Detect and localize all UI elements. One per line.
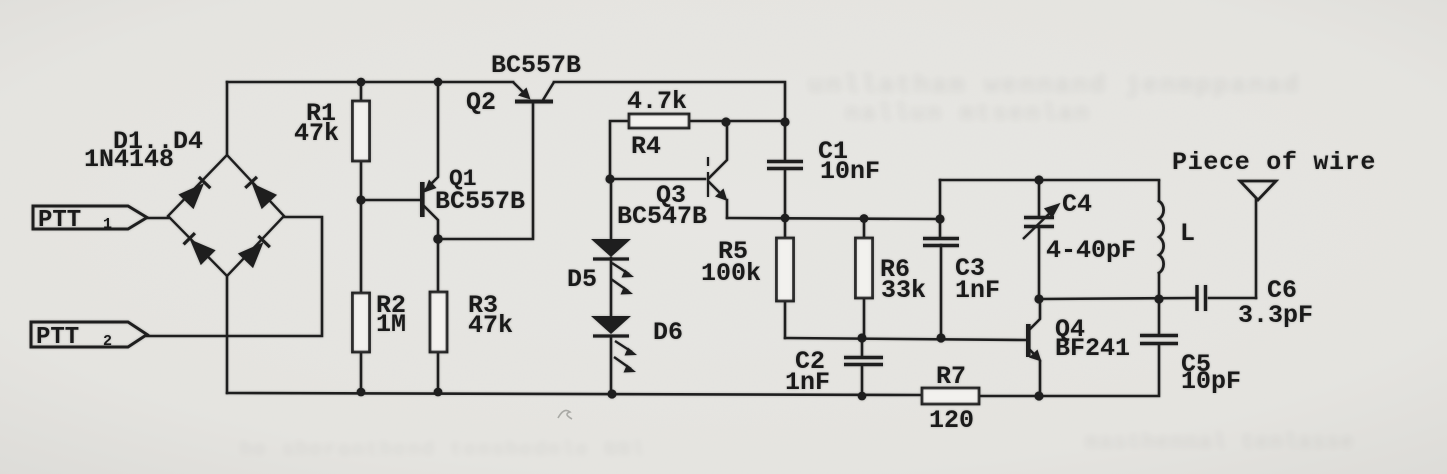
resistor R2 <box>353 293 370 352</box>
wire Q3 base <box>610 178 705 181</box>
transistor Q3 emitter arrow <box>715 189 728 202</box>
transistor Q3 emitter wire <box>709 182 727 218</box>
wire R4 left down to Q3 base node <box>610 121 629 179</box>
transistor Q2 emitter arrow <box>518 88 531 100</box>
diode D2 (bridge top-right) <box>243 175 277 209</box>
inductor L coil <box>1159 201 1164 273</box>
wire bridge right vertex to PTT2 <box>147 217 322 336</box>
capacitor C2 <box>844 358 883 365</box>
capacitor C4 trimmer <box>1024 218 1054 227</box>
wire diamond top stem <box>226 82 229 155</box>
node line N3 <box>1039 298 1196 299</box>
node line N1 emitter Q3 <box>727 218 940 219</box>
junction C4 top <box>1034 175 1043 184</box>
junction Q1 collector/R3/Q2 base node <box>433 234 443 244</box>
wire R6 stems <box>863 219 866 338</box>
wire PTT1 to bridge <box>147 217 168 220</box>
resistor R7 <box>922 388 979 404</box>
resistor R6 <box>856 238 873 298</box>
transistor Q1 emitter wire <box>425 82 438 190</box>
capacitor C5 <box>1140 336 1178 344</box>
wire D5 D6 chain <box>610 179 613 394</box>
junction Q3 collector on R4 right wire <box>721 117 730 126</box>
junction R6 top <box>860 214 869 223</box>
antenna wire <box>1255 199 1258 298</box>
wire C1 bottom stem <box>784 170 787 218</box>
junction C3 top <box>935 214 944 223</box>
LED D5 <box>591 239 631 257</box>
transistor Q4 collector wire <box>1030 299 1040 329</box>
svg-text:masthennal tenlasse: masthennal tenlasse <box>1085 430 1355 455</box>
junction R2 bottom on ground rail <box>357 388 366 397</box>
junction Q4 emitter on ground rail <box>1034 391 1043 400</box>
junction R4 right wire to C1 top <box>780 117 789 126</box>
wire top right line to C4 and L <box>940 179 1159 182</box>
diode D1 (bridge top-left) <box>178 175 212 209</box>
capacitor C6 <box>1197 285 1206 311</box>
junction C2 bottom on ground rail <box>858 392 867 401</box>
wire Q1 base <box>361 199 420 202</box>
diode D4 (bridge bottom-right) <box>238 234 272 268</box>
transistor Q4 emitter wire <box>1030 350 1040 396</box>
LED D6 <box>591 316 631 334</box>
transistor Q1 bar <box>420 182 425 217</box>
junction R1 top on supply rail <box>357 78 366 87</box>
junction R6 bottom/C2 top <box>857 333 866 342</box>
transistor Q1 collector wire <box>424 206 438 239</box>
wire C6 to antenna <box>1209 297 1256 300</box>
resistor R3 <box>430 292 447 352</box>
capacitor C1 <box>767 162 803 169</box>
svg-text:he sheranthend tenshednle N: he sheranthend tenshednle NNl <box>240 439 646 462</box>
junction C3 bottom <box>936 333 945 342</box>
transistor Q2 collector wire <box>543 82 554 100</box>
wire top rail right <box>554 82 785 159</box>
wire R4 right to C1 node <box>689 120 785 123</box>
transistor Q4 emitter arrow <box>1029 350 1042 362</box>
wire L stems <box>1158 181 1161 299</box>
junction Q1 emitter on supply rail <box>434 78 443 87</box>
transistor Q2 emitter wire <box>513 82 524 93</box>
node line N2 <box>785 338 1026 340</box>
wire R1 stems <box>360 82 363 200</box>
junction R3 bottom on ground rail <box>434 388 443 397</box>
diode bridge diamond <box>168 155 284 276</box>
trimmer C4 arrow <box>1023 205 1058 239</box>
wire C5 top stem <box>1158 299 1161 334</box>
svg-text:unllatham wennand jenmppanad: unllatham wennand jenmppanad <box>808 70 1301 100</box>
junction R1/R2/Q1 base node <box>356 195 365 204</box>
svg-text:nallun mtsenlan: nallun mtsenlan <box>845 101 1091 128</box>
wire bridge bottom stem <box>226 276 229 393</box>
capacitor C3 <box>923 239 959 246</box>
junction R4 left/Q3 base/D5 anode node <box>605 174 614 183</box>
junction D6 cathode on ground rail <box>607 389 616 398</box>
wire R3 stems <box>437 239 440 392</box>
transistor Q3 bar dashed <box>707 157 709 197</box>
wire top rail left <box>227 81 513 84</box>
wire C2 stems <box>861 338 864 396</box>
wire Q2 base down to Q1 collector <box>438 103 533 239</box>
connector PTT1 <box>33 206 147 229</box>
wire C4 stems <box>1038 180 1041 299</box>
junction L bottom/C5 top <box>1154 294 1163 303</box>
wire R2 stems <box>360 200 363 392</box>
resistor R5 <box>777 238 794 301</box>
resistor R1 <box>353 101 370 161</box>
junction C1 bottom/R5 top <box>781 214 790 223</box>
connector PTT2 <box>31 322 147 347</box>
antenna symbol <box>1240 181 1276 200</box>
wire C3 stems <box>940 180 941 338</box>
transistor Q2 bar <box>515 100 553 104</box>
transistor Q4 bar <box>1026 324 1031 357</box>
transistor Q1 emitter arrow <box>424 180 437 193</box>
resistor R4 <box>629 114 689 128</box>
wire R5 stems <box>784 218 787 338</box>
wire bottom rail <box>227 344 1159 396</box>
junction C4 bottom/Q4 collector <box>1034 294 1043 303</box>
diode D3 (bridge bottom-left) <box>182 231 216 265</box>
transistor Q3 collector wire <box>709 122 727 178</box>
